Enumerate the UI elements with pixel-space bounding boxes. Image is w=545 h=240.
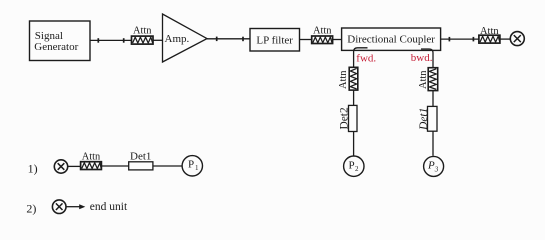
svg-text:Directional Coupler: Directional Coupler <box>347 33 435 45</box>
svg-text:1: 1 <box>195 164 199 172</box>
svg-text:Attn: Attn <box>82 151 101 162</box>
attenuator A4 bwd branch (vertical) <box>418 68 438 91</box>
svg-text:fwd.: fwd. <box>356 52 376 64</box>
svg-text:P: P <box>427 160 435 172</box>
bwd coupled port hook and wire down <box>421 49 433 68</box>
wire mixer M2 to attenuator A6 <box>68 165 81 167</box>
attenuator A2 (Attn) <box>312 26 333 44</box>
wire attenuator A3 to detector Det2 <box>353 90 355 105</box>
directional coupler box <box>342 28 441 50</box>
tick mark <box>242 37 244 42</box>
wire attenuator A6 to detector Det1 <box>101 165 128 167</box>
mixer symbol M3 (circle with X) <box>52 200 66 214</box>
svg-text:Attn: Attn <box>338 70 349 89</box>
svg-text:1): 1) <box>28 162 38 176</box>
wire directional coupler to attenuator A5 <box>441 38 479 40</box>
arrow to end unit <box>66 204 85 209</box>
tick mark <box>123 38 125 43</box>
attenuator A3 fwd branch (vertical) <box>338 67 358 90</box>
attenuator A1 (Attn) <box>132 25 154 44</box>
svg-text:3: 3 <box>434 166 439 174</box>
attenuator A5 (Attn) <box>479 26 500 43</box>
detector Det1 box (setup 1) <box>129 150 153 170</box>
svg-text:P: P <box>188 158 194 170</box>
wire Det2 to power meter P2 <box>353 132 355 156</box>
svg-text:Attn: Attn <box>480 26 499 37</box>
svg-text:end unit: end unit <box>90 201 128 213</box>
power meter P2 circle <box>344 156 364 176</box>
svg-text:Generator: Generator <box>34 41 78 53</box>
detector Det2 box <box>338 105 357 131</box>
svg-text:LP filter: LP filter <box>256 35 293 47</box>
wire attenuator A5 to mixer M1 <box>500 38 510 40</box>
wire attenuator A2 to directional coupler <box>333 39 342 41</box>
fwd coupled port hook and wire down <box>354 48 368 68</box>
svg-text:Det1: Det1 <box>418 108 430 131</box>
tick mark <box>216 37 218 42</box>
wire LP filter to attenuator A2 <box>300 39 312 41</box>
tick mark <box>97 38 99 43</box>
svg-text:Attn: Attn <box>418 70 429 89</box>
tick mark <box>472 37 474 42</box>
wire signal generator to attenuator A1 <box>90 39 132 41</box>
svg-text:Det2: Det2 <box>338 107 350 129</box>
mixer symbol M2 (circle with X) <box>54 160 67 173</box>
svg-text:Det1: Det1 <box>130 150 151 162</box>
svg-text:2): 2) <box>26 202 36 216</box>
wire amplifier to LP filter <box>207 38 250 40</box>
wire attenuator A4 to detector Det1 <box>432 91 434 107</box>
wire detector Det1 to power meter P1 <box>153 165 182 167</box>
amplifier triangle U1 <box>163 14 208 62</box>
attenuator A6 (Attn) <box>81 151 102 169</box>
svg-text:Attn: Attn <box>313 26 332 37</box>
mixer symbol M1 (circle with X) <box>510 32 524 46</box>
svg-text:bwd.: bwd. <box>411 52 433 64</box>
detector Det1 box (bwd branch) <box>418 106 437 131</box>
svg-text:2: 2 <box>355 165 359 173</box>
svg-text:Attn: Attn <box>133 25 152 36</box>
wire Det1 to power meter P3 <box>432 131 434 156</box>
wire attenuator A1 to amplifier <box>153 39 163 41</box>
svg-text:P: P <box>349 160 355 172</box>
tick mark <box>448 37 450 42</box>
power meter P1 circle <box>182 156 202 176</box>
LP filter box <box>250 29 300 52</box>
power meter P3 circle <box>424 156 444 176</box>
signal generator box <box>30 21 91 61</box>
svg-text:Amp.: Amp. <box>165 33 190 45</box>
